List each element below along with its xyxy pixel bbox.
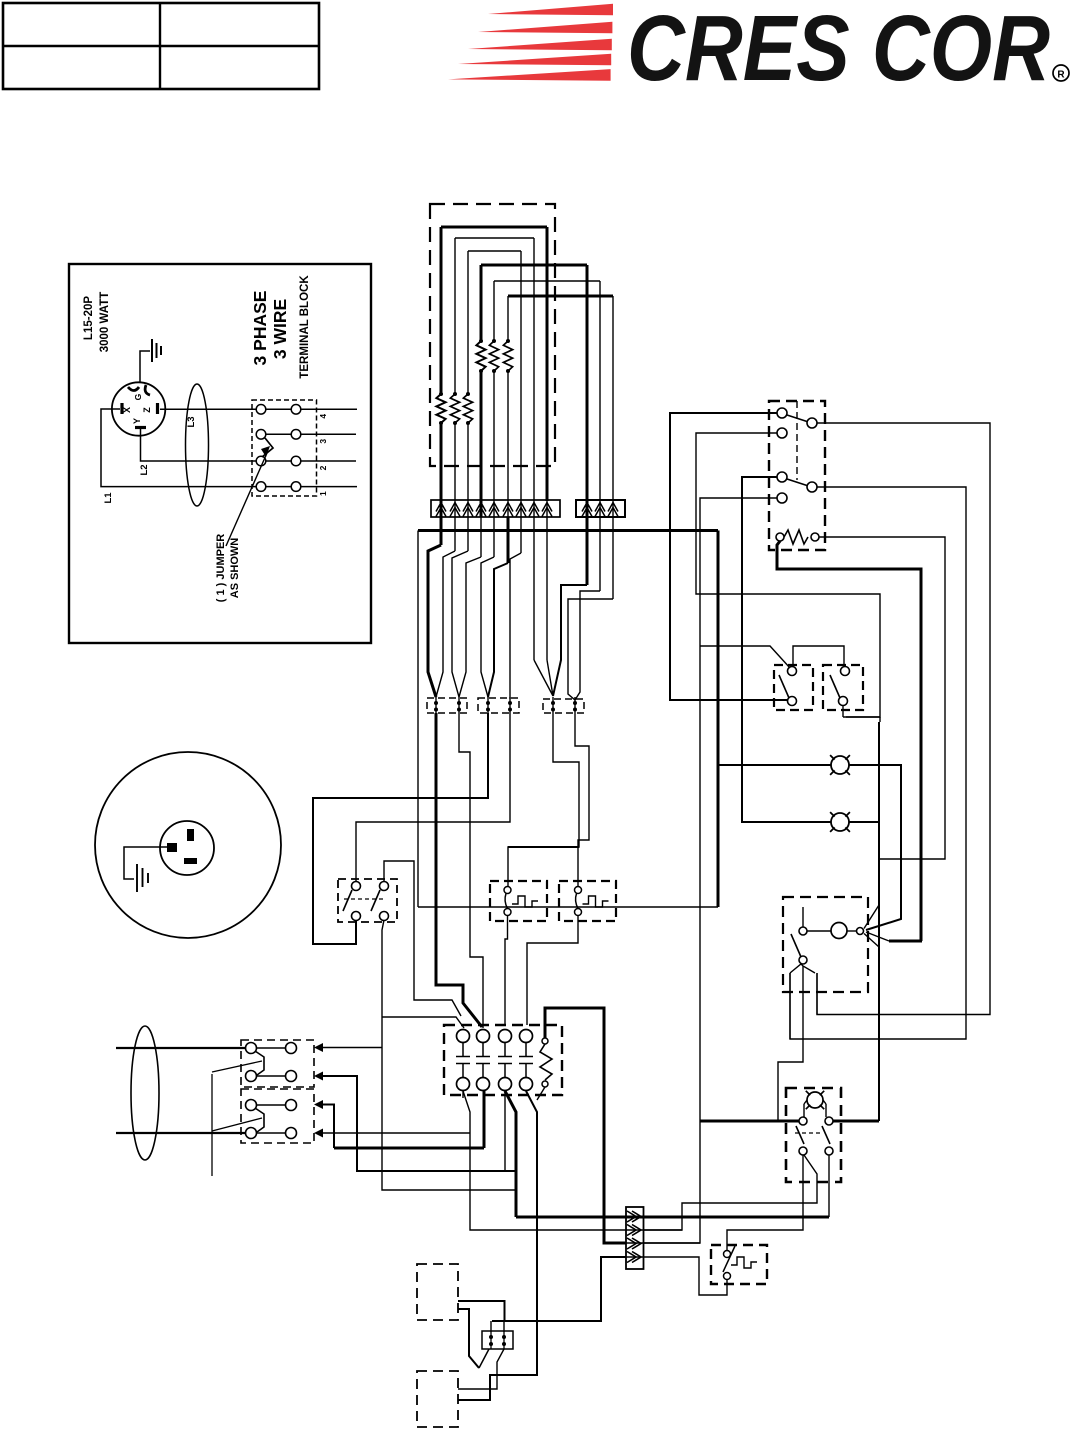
connector J1 pin at x=468	[463, 503, 473, 512]
wire SW1a common to far right drop	[817, 423, 990, 1015]
wire supply L1	[116, 1047, 246, 1049]
wire element right legs	[546, 227, 549, 501]
wire HL1 bottom to contactor pole 3	[505, 916, 508, 1025]
wire HL2 bottom to contactor pole 4	[527, 916, 578, 1025]
wire element loop 4 top	[481, 264, 587, 267]
wire branch arrow to terminal block row 1	[322, 1047, 382, 1049]
contactor pole 4	[520, 1030, 533, 1043]
thermostat T2 dashed box	[711, 1245, 767, 1284]
svg-text:R: R	[1057, 70, 1065, 81]
switch SW2 mechanical link	[795, 1132, 820, 1134]
wire J3 pin4 right side to T2	[643, 1257, 727, 1295]
terminal	[246, 1071, 257, 1082]
thermostat T1 left terminal	[799, 927, 807, 935]
SW3 mechanical link	[344, 898, 385, 900]
connector J3 pin at y=1243.5	[632, 1238, 641, 1249]
relay K2 blade	[830, 675, 840, 698]
plug pin X	[120, 403, 123, 414]
wire S4 columns from rail	[490, 1321, 492, 1332]
wire supply L2	[116, 1132, 246, 1134]
svg-text:G: G	[133, 393, 143, 400]
relay K1 blade	[779, 675, 789, 698]
selector switch SW1 dashed box	[769, 401, 825, 550]
wire relay K2 drop joins x879	[879, 717, 881, 722]
terminal 3 right	[291, 430, 301, 440]
splice block S1	[427, 698, 467, 713]
arrow into TB2-2	[314, 1072, 323, 1081]
hi-limit thermostat HL1 dashed box	[490, 881, 547, 921]
Cres Cor logo red speed lines	[488, 4, 613, 16]
connector J1 pin at x=534	[529, 503, 539, 512]
wire main bus horizontal	[418, 529, 718, 532]
switch SW2 pole B upper	[825, 1117, 833, 1125]
connector J2 pin at x=613	[608, 503, 618, 512]
splice S4 left blade	[479, 1349, 489, 1368]
contactor coil terminals	[542, 1038, 548, 1044]
connector strip J1	[431, 500, 560, 517]
inset terminal block TB1	[252, 400, 317, 496]
ground symbol at plug	[140, 351, 150, 382]
arrow into TB2-1	[314, 1043, 323, 1052]
heating element R2	[453, 392, 457, 396]
cable ellipse	[186, 384, 209, 506]
HL2 lower terminal	[575, 909, 582, 916]
wire contactor pole3 bottom stub	[504, 1091, 506, 1171]
jumper indication diagonals	[212, 1061, 262, 1072]
heating element R3	[466, 392, 470, 396]
wire main bus left vertical	[417, 531, 419, 908]
wire T1 lower V legs	[790, 964, 815, 973]
relay contact K1 dashed box	[774, 665, 813, 710]
connector J1 pin at x=481	[476, 503, 486, 512]
jumper between terminals 2 and 3	[262, 438, 273, 457]
switch SW2 pole A upper	[799, 1117, 807, 1125]
terminal	[246, 1128, 257, 1139]
connector J2 pin at x=587	[582, 503, 592, 512]
svg-text:TERMINAL BLOCK: TERMINAL BLOCK	[299, 275, 311, 379]
SW3 pole B lower	[380, 912, 389, 921]
plug pin G	[128, 385, 150, 395]
relay contact K2 dashed box	[823, 665, 863, 710]
connector strip J2	[576, 500, 625, 517]
hi-limit thermostat HL2 dashed box	[559, 881, 616, 921]
svg-text:L2: L2	[139, 464, 150, 475]
registered trademark symbol	[1053, 65, 1069, 81]
splice block S3	[543, 699, 584, 713]
thermostat T1 right terminal	[857, 928, 864, 935]
hi-limit control dashed box (lamp + switch)	[786, 1088, 841, 1182]
SW3 pole B upper	[380, 882, 389, 891]
pilot light PL2	[831, 813, 849, 831]
lamp leads	[803, 1104, 805, 1117]
connector J3 pin at y=1230	[632, 1225, 641, 1236]
wire arrow3 feed	[322, 1105, 334, 1149]
wire SW1b-L2 down to connector pin 3	[643, 498, 777, 1243]
HL1 sensor glyph	[512, 896, 538, 907]
SW3 pole B blade	[371, 890, 380, 911]
svg-text:X: X	[122, 407, 132, 413]
wire B1 lower lead to S4 left blade	[458, 1309, 479, 1368]
selector element terminals	[776, 533, 784, 541]
svg-text:3 PHASE: 3 PHASE	[250, 291, 270, 366]
wire fan feeds into T1 right terminal	[864, 905, 879, 929]
receptacle slot top	[187, 829, 194, 841]
T2 sensor glyph	[731, 1257, 757, 1268]
wire contactor pole1 bottom stub	[462, 1091, 464, 1098]
thermostat T1 bulb	[831, 923, 847, 939]
svg-text:3 WIRE: 3 WIRE	[270, 299, 290, 359]
terminal	[286, 1128, 297, 1139]
svg-text:1: 1	[318, 491, 328, 496]
arrow into TB3-1	[314, 1100, 323, 1109]
connector J1 pin at x=521	[516, 503, 526, 512]
HL1 upper terminal	[504, 887, 511, 894]
T2 blade	[723, 1246, 735, 1272]
terminal 4 left	[256, 405, 266, 415]
HL2 upper terminal	[575, 887, 582, 894]
wire J3 pin3 right side	[643, 1242, 700, 1244]
wire element loop 2 top	[455, 237, 534, 239]
wire plug X to terminal row 1 (L1)	[101, 409, 256, 487]
terminal	[286, 1043, 297, 1054]
wire splice S2b to SW3 pole A upper	[356, 713, 510, 881]
HL1 blade	[505, 894, 507, 909]
wire rail at y907	[418, 906, 718, 908]
wire splice rail to J3 pin4	[492, 1257, 626, 1321]
svg-text:AS SHOWN: AS SHOWN	[229, 538, 241, 599]
selector SW1b contacts	[777, 472, 787, 482]
wire SW1a-L1 to relay K1 lower contact	[670, 413, 788, 700]
selector SW1a contacts	[777, 408, 787, 418]
SW3 pole A blade	[343, 890, 352, 911]
terminal 1 right	[291, 482, 301, 492]
switch SW2 pole B lower	[825, 1147, 833, 1155]
wire plug Z to terminal row 4	[160, 408, 256, 410]
T2 upper terminal	[724, 1251, 731, 1258]
svg-text:Y: Y	[132, 418, 142, 424]
wire coil feed thick	[545, 1008, 626, 1243]
wire SW3 pole B upper right drop	[384, 861, 461, 1016]
receptacle ground lead	[124, 847, 167, 879]
wires connector J1/J2 down to splices	[440, 517, 443, 545]
terminal 1 left	[256, 482, 266, 492]
svg-text:L3: L3	[186, 416, 197, 427]
contactor pole 2	[477, 1030, 490, 1043]
SW3 pole A lower	[352, 912, 361, 921]
wire contactor pole4 bottom thick drop	[458, 1091, 537, 1400]
jumper callout arrow	[226, 453, 267, 546]
inset detail box border	[69, 264, 371, 643]
terminal	[286, 1100, 297, 1111]
relay K1 lower contact	[788, 697, 797, 706]
wire relay K2 lower to corner	[842, 706, 844, 717]
selector heater element zigzag	[784, 530, 808, 544]
wire element legs left group	[440, 227, 443, 394]
wire B1 upper lead to splice S4	[458, 1301, 505, 1321]
terminal 4 right	[291, 405, 301, 415]
wire element loop 1 top	[441, 226, 547, 229]
wire main bus right vertical	[717, 531, 720, 908]
wire pilot PL1 row	[718, 764, 831, 766]
svg-text:3: 3	[318, 439, 328, 444]
wire thick rail to contactor pole2	[334, 1147, 484, 1150]
wire element loop 6 top	[508, 295, 613, 298]
wire splice S3a to HL1 top	[508, 713, 579, 886]
wire element loop 5 top	[494, 280, 600, 282]
connector J3 pin at y=1216.5	[632, 1211, 641, 1222]
wire element legs upper group	[480, 265, 483, 341]
T2 lower terminal	[724, 1273, 731, 1280]
wire thick into SW2 pole A upper	[700, 1120, 799, 1123]
selector SW1a blade	[787, 415, 807, 422]
selector inner dashed divider	[796, 401, 798, 480]
indicator lamp PL3	[807, 1092, 823, 1108]
heater bank dashed enclosure	[430, 204, 555, 466]
heating element R6	[506, 339, 510, 343]
wire contactor pole2 bottom thick	[483, 1091, 486, 1148]
wire thick splice S1a to contactor pole 2	[436, 713, 482, 1027]
switch SW2 pole A blade	[796, 1126, 804, 1144]
receptacle face	[160, 821, 214, 875]
wire splice S2a to SW3 pole A lower loop	[313, 713, 488, 944]
contactor pole 1	[457, 1030, 470, 1043]
wire bridge between relay tops	[793, 646, 844, 666]
connector J1 pin at x=547	[542, 503, 552, 512]
wire SW2 pole B upper to x879	[833, 1120, 879, 1123]
switch SW2 pole A lower	[799, 1147, 807, 1155]
wire contactor pole3 diag to pin1 drop	[505, 1091, 516, 1217]
accessory dashed box B2	[417, 1371, 458, 1427]
wire SW1b-L1 to pilot light PL2	[742, 477, 831, 822]
thermostat T1 dashed box	[783, 897, 868, 992]
wire SW3 pole B lower long drop	[382, 920, 516, 1190]
cable ellipse bottom	[131, 1026, 159, 1160]
thermostat T1 blade	[791, 934, 801, 957]
connector J1 pin at x=508	[503, 503, 513, 512]
terminal 2 right	[291, 456, 301, 466]
wire coil lower terminal joins pole4 drop	[537, 1087, 545, 1100]
plug pin Y	[135, 426, 146, 429]
wire terminal row 3	[266, 433, 291, 435]
terminal block TB2 dashed	[241, 1040, 314, 1087]
wire thick through J3 pin1	[626, 1216, 829, 1219]
wires resistors to connector strip	[440, 423, 443, 501]
connector J1 pin at x=494	[489, 503, 499, 512]
splice block S4	[482, 1331, 513, 1349]
wire SW1a-L2 to relay K2 lower	[696, 433, 880, 717]
wire SW2 pole B lower down to thick rail	[828, 1155, 830, 1217]
receptacle outer circle	[95, 752, 281, 938]
wire J3 pin2 right side	[643, 1229, 682, 1231]
wire arrow2 feed	[322, 1076, 516, 1171]
connector strip J3	[626, 1207, 644, 1269]
terminal	[246, 1100, 257, 1111]
terminal block TB3 dashed	[241, 1089, 314, 1143]
wire arrow4 feed	[322, 1132, 470, 1134]
plug P1 L15-20P body	[112, 382, 165, 435]
wire vertical x879 relay to lamp box	[878, 722, 880, 1121]
wire SW2 pole A lower blade to rail 1203	[643, 1155, 817, 1230]
contactor K dashed box	[444, 1025, 562, 1095]
receptacle slot left	[167, 843, 177, 852]
svg-text:L15-20P: L15-20P	[83, 296, 95, 340]
relay K2 upper contact	[841, 667, 850, 676]
connector J1 pin at x=455	[450, 503, 460, 512]
wire T1 common drop to lamp box	[778, 966, 803, 1121]
wire T1 bulb to right	[847, 930, 857, 932]
connector J2 pin at x=600	[595, 503, 605, 512]
receptacle slot bottom	[184, 858, 197, 864]
relay K1 upper contact	[788, 667, 797, 676]
wire jumper stub down	[211, 1074, 213, 1176]
wire splice S3b to HL2 top	[575, 713, 589, 886]
switch SW3 dashed box	[338, 879, 397, 922]
svg-text:3000 WATT: 3000 WATT	[99, 292, 111, 353]
heating element R4	[479, 339, 483, 343]
wire T1 left to bulb	[807, 930, 831, 932]
svg-text:4: 4	[318, 414, 328, 419]
svg-text:CRES COR: CRES COR	[627, 0, 1050, 100]
wire contactor pole1 to connector pin2	[463, 1091, 626, 1230]
svg-text:L1: L1	[103, 492, 114, 504]
HL1 lower terminal	[504, 909, 511, 916]
selector SW1b blade	[787, 479, 807, 486]
splice S4 right blade to B2	[458, 1349, 504, 1389]
splice block S2	[478, 698, 519, 713]
relay K2 lower contact	[839, 697, 848, 706]
thermostat T1 switch lower	[799, 956, 807, 964]
wire T1 left terminal up	[802, 907, 804, 927]
HL2 sensor glyph	[583, 896, 609, 907]
wire SW2 pole A lower to thermostat T2 top	[727, 1155, 803, 1250]
connector J3 pin at y=1257	[632, 1252, 641, 1263]
wire element loop 3 top	[468, 250, 521, 252]
SW3 pole A upper	[352, 882, 361, 891]
wire pilot PL2 row right	[849, 821, 879, 823]
pilot light PL1	[831, 756, 849, 774]
wire element left thick drop	[777, 541, 921, 941]
connector J1 pin at x=441	[436, 503, 446, 512]
terminal	[246, 1043, 257, 1054]
accessory dashed box B1	[417, 1264, 458, 1320]
arrow into TB3-2	[314, 1129, 323, 1138]
TB3 jumpers	[257, 1104, 286, 1106]
svg-text:2: 2	[318, 465, 328, 470]
contactor coil zigzag	[540, 1044, 552, 1080]
terminal 3 left	[256, 430, 266, 440]
HL2 blade	[576, 894, 578, 909]
wire branch to relay bridge	[700, 646, 790, 668]
wire splice S1b to contactor pole 2 thin	[459, 713, 483, 1028]
wire plug Y to terminal row 2 (L2)	[141, 429, 257, 461]
terminal	[286, 1071, 297, 1082]
svg-text:Z: Z	[142, 407, 152, 413]
heating element R1	[439, 392, 443, 396]
wire element right drop	[819, 537, 945, 859]
wire SW1b common right drop	[790, 487, 966, 1039]
terminal 2 left	[256, 456, 266, 466]
switch SW2 pole B blade	[822, 1126, 830, 1144]
wire thick rail y1217	[516, 1216, 829, 1219]
receptacle ground symbol	[136, 864, 138, 892]
plug pin Z	[156, 403, 159, 414]
svg-text:( 1 ) JUMPER: ( 1 ) JUMPER	[215, 534, 227, 603]
heating element R5	[492, 339, 496, 343]
title block table	[3, 3, 319, 89]
wire branch to contactor pole 1	[382, 1017, 464, 1028]
wire PL1 right drop	[849, 765, 901, 930]
TB2 jumpers	[257, 1047, 286, 1049]
contactor pole 3	[499, 1030, 512, 1043]
